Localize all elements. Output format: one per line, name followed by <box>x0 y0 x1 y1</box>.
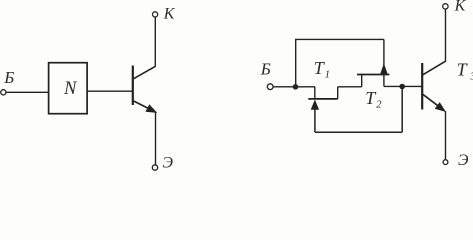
svg-text:Э: Э <box>458 152 469 169</box>
svg-text:Б: Б <box>260 59 271 78</box>
wire: terminal Б to block N <box>6 91 49 93</box>
T3 emitter lead (diagonal) <box>423 94 444 110</box>
node A (junction dot on base wire) <box>293 84 299 90</box>
wire: T3 emitter to terminal Э <box>445 111 447 159</box>
wire: emitter to terminal Э <box>155 112 157 165</box>
wire: T1 collector to T2 base <box>338 86 362 88</box>
transistor T1 (pnp) base lead down from base wire <box>314 87 316 99</box>
transistor (left, npn) base bar <box>132 66 134 106</box>
block N <box>49 63 88 114</box>
wire: collector to terminal К <box>154 17 156 66</box>
svg-text:К: К <box>163 6 176 23</box>
terminal К (right) <box>443 4 448 9</box>
wire: top rail to T2 emitter <box>295 38 384 40</box>
T1 collector lead up from bar end <box>337 87 339 99</box>
node B (junction dot at T3 base) <box>399 84 405 90</box>
wire: block N to transistor base <box>87 90 132 92</box>
wire: top rail down to T2 emitter arrow <box>383 39 385 74</box>
svg-text:2: 2 <box>376 100 382 111</box>
wire: node B down to feedback rail <box>401 87 403 133</box>
terminal Э (left) <box>152 165 157 170</box>
transistor T1 base bar (horizontal) <box>308 98 337 100</box>
terminal Б (right) <box>267 84 273 90</box>
terminal К (left) <box>153 12 158 17</box>
wire: T3 collector to terminal К <box>445 9 447 61</box>
T3 emitter arrow (npn, outward) <box>435 102 446 112</box>
svg-text:N: N <box>63 79 78 99</box>
svg-text:К: К <box>454 0 467 15</box>
T3 collector lead (diagonal) <box>423 61 446 75</box>
T2 emitter arrow (npn, outward, up) <box>380 63 388 74</box>
T2 base lead up <box>361 75 363 87</box>
T1 emitter lead down <box>314 108 316 132</box>
wire: terminal Б to node A and T1 base <box>273 86 315 88</box>
wire: T2 collector to node B and T3 base <box>384 85 422 87</box>
collector lead (diagonal) <box>133 66 155 79</box>
terminal Б (left) <box>1 90 6 95</box>
transistor T3 (npn) base bar <box>421 63 423 110</box>
svg-text:1: 1 <box>325 70 330 81</box>
transistor T2 (npn) base bar (horizontal) <box>357 74 389 76</box>
wire: bottom feedback rail to T1 emitter <box>315 131 402 133</box>
svg-text:Б: Б <box>3 68 14 87</box>
emitter arrow (npn, outward) <box>146 104 158 113</box>
terminal Э (right) <box>443 160 448 165</box>
svg-text:3: 3 <box>470 71 473 82</box>
emitter lead (diagonal) <box>133 101 154 112</box>
T1 emitter arrow (pnp, pointing into bar) <box>311 100 319 110</box>
svg-text:Э: Э <box>163 155 174 172</box>
wire: node A up to top rail <box>295 39 297 86</box>
T2 collector lead down <box>383 75 385 87</box>
